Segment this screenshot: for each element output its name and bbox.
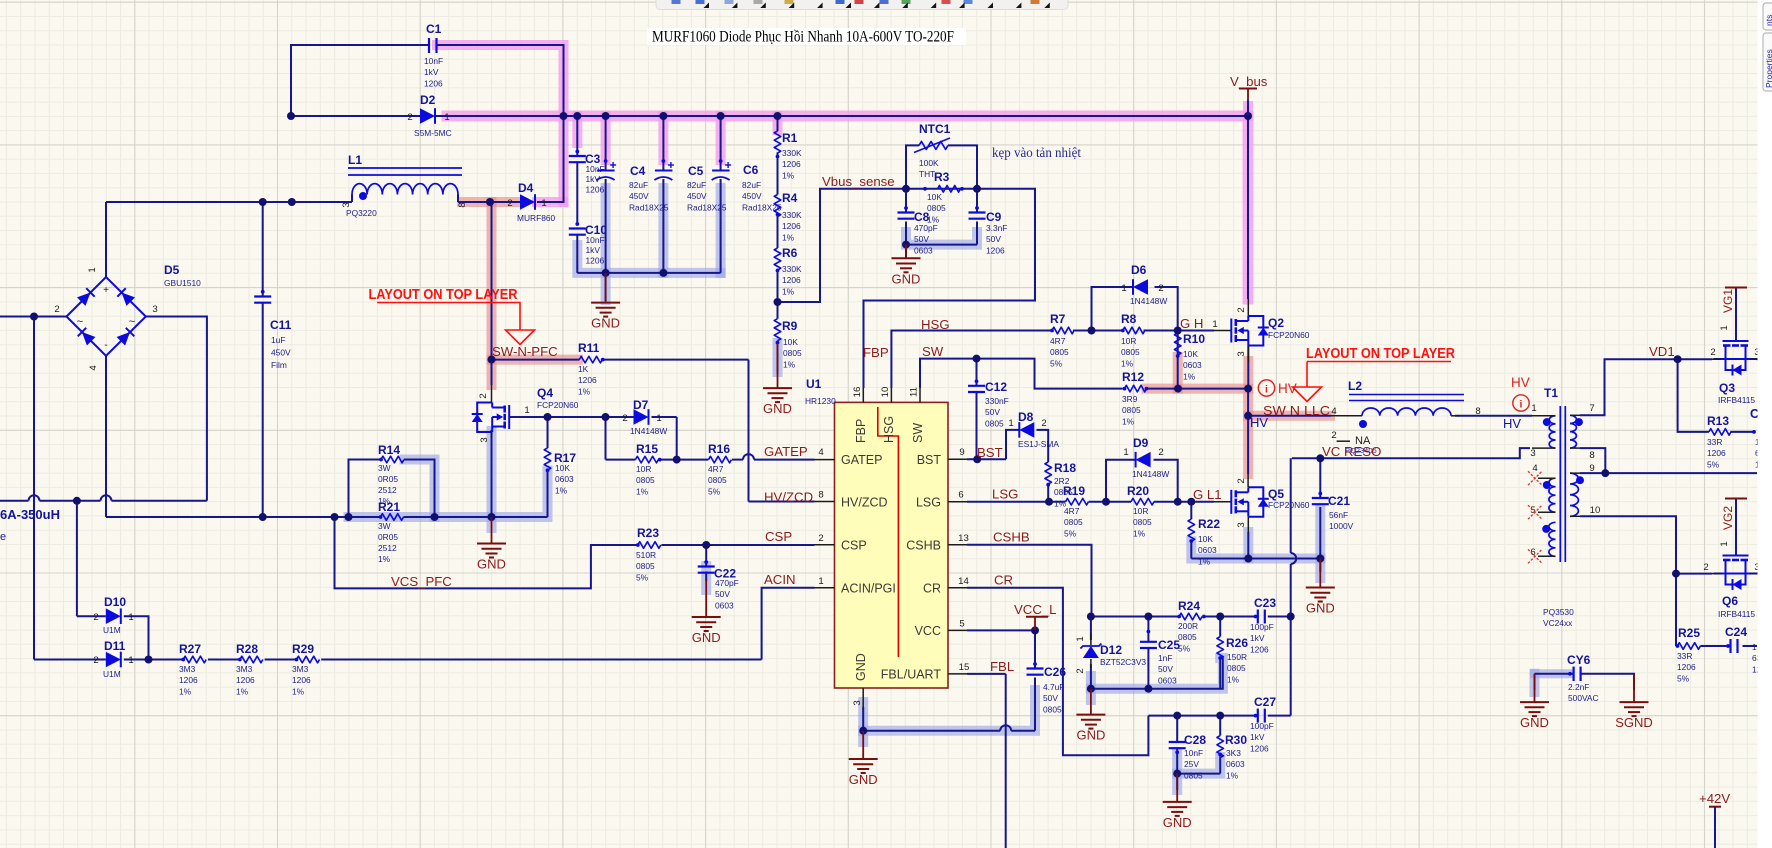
svg-text:1: 1 xyxy=(818,576,823,587)
wire R1 R4 R6 divider column xyxy=(777,116,779,131)
wire C21 column xyxy=(1319,458,1321,497)
svg-text:10K: 10K xyxy=(1183,349,1198,359)
wire VCC run xyxy=(967,629,1035,631)
svg-text:10nF: 10nF xyxy=(586,235,605,245)
capacitor C12 xyxy=(968,385,985,387)
svg-text:U1M: U1M xyxy=(103,625,121,635)
wire FBL vertical to sheet bottom xyxy=(967,673,1006,675)
svg-text:150R: 150R xyxy=(1227,652,1247,662)
svg-text:S5M-5MC: S5M-5MC xyxy=(414,128,452,138)
svg-text:R12: R12 xyxy=(1122,370,1144,384)
svg-text:1: 1 xyxy=(1719,541,1730,546)
resistor R29 xyxy=(297,656,320,663)
svg-text:1kV: 1kV xyxy=(1250,732,1265,742)
diode D8 ES1J-SMA xyxy=(1019,422,1034,438)
svg-text:R15: R15 xyxy=(636,442,658,456)
svg-text:HV/ZCD: HV/ZCD xyxy=(841,495,888,509)
svg-text:1: 1 xyxy=(128,655,133,666)
svg-text:1: 1 xyxy=(1008,418,1013,429)
svg-text:C21: C21 xyxy=(1328,494,1350,508)
svg-text:5%: 5% xyxy=(1064,528,1077,538)
bridge rectifier D5 GBU1510 xyxy=(67,277,146,356)
svg-text:C1: C1 xyxy=(426,22,442,36)
svg-text:100pF: 100pF xyxy=(1250,721,1274,731)
svg-text:BST: BST xyxy=(977,445,1003,460)
thermistor NTC1 100K xyxy=(919,141,948,149)
tooltip MURF1060 title xyxy=(647,28,966,45)
svg-text:3R9: 3R9 xyxy=(1122,394,1138,404)
svg-text:2: 2 xyxy=(1236,307,1247,312)
svg-text:56nF: 56nF xyxy=(1329,510,1348,520)
svg-text:14: 14 xyxy=(958,576,969,587)
svg-text:10K: 10K xyxy=(783,337,798,347)
wire D12 column xyxy=(1090,617,1092,641)
wire CR run xyxy=(967,588,1148,755)
salmon highlighted SW-N-PFC net glow xyxy=(462,197,519,207)
capacitor C25 xyxy=(1140,641,1157,643)
svg-text:3: 3 xyxy=(1236,522,1247,527)
wire R22 column xyxy=(1190,502,1192,519)
svg-text:0805: 0805 xyxy=(783,348,802,358)
svg-text:SW N LLC: SW N LLC xyxy=(1263,403,1331,418)
svg-text:D11: D11 xyxy=(104,639,126,653)
svg-text:Q5: Q5 xyxy=(1268,487,1284,501)
svg-text:HV/ZCD: HV/ZCD xyxy=(764,490,813,505)
svg-text:1: 1 xyxy=(1531,403,1536,414)
wire R17 leads xyxy=(547,417,549,448)
svg-text:0603: 0603 xyxy=(715,600,734,610)
svg-text:C24: C24 xyxy=(1725,625,1747,639)
signal ground SGND for CY6 right xyxy=(1633,674,1635,702)
wire R14 bypass xyxy=(349,460,382,518)
svg-text:1206: 1206 xyxy=(1250,743,1269,753)
svg-text:FCP20N60: FCP20N60 xyxy=(537,400,579,410)
resistor R15 xyxy=(635,456,658,463)
svg-text:R11: R11 xyxy=(578,341,600,355)
svg-text:1N4148W: 1N4148W xyxy=(630,426,667,436)
svg-text:C28: C28 xyxy=(1184,733,1206,747)
svg-text:1206: 1206 xyxy=(292,675,311,685)
ground symbol for Q5 source rail xyxy=(1319,559,1321,588)
ground symbol for R9 xyxy=(777,343,779,389)
svg-text:~: ~ xyxy=(77,316,83,328)
svg-text:9: 9 xyxy=(1589,463,1594,474)
svg-text:R14: R14 xyxy=(378,443,400,457)
svg-text:1: 1 xyxy=(1121,283,1126,294)
svg-text:CY6: CY6 xyxy=(1567,653,1591,667)
svg-text:VD1: VD1 xyxy=(1649,344,1675,359)
svg-text:Properties: Properties xyxy=(1764,49,1772,88)
ground symbol for Q4 source xyxy=(491,517,493,544)
svg-text:2: 2 xyxy=(93,655,98,666)
svg-text:3.3nF: 3.3nF xyxy=(986,223,1007,233)
wire NTC1 box xyxy=(906,145,919,188)
svg-text:0805: 0805 xyxy=(1184,770,1203,780)
svg-text:5: 5 xyxy=(959,618,964,629)
resistor R25 xyxy=(1677,643,1700,650)
svg-text:3: 3 xyxy=(479,437,490,442)
svg-text:2: 2 xyxy=(93,612,98,623)
svg-text:C6: C6 xyxy=(743,163,759,177)
svg-text:0805: 0805 xyxy=(708,475,727,485)
svg-text:R21: R21 xyxy=(378,500,400,514)
svg-text:Q3: Q3 xyxy=(1719,381,1735,395)
svg-text:CR: CR xyxy=(994,573,1013,588)
svg-text:5: 5 xyxy=(1530,505,1535,516)
svg-text:VC24xx: VC24xx xyxy=(1543,618,1573,628)
svg-text:1%: 1% xyxy=(1198,556,1211,566)
svg-text:3M3: 3M3 xyxy=(179,664,196,674)
wire R25 to C24 xyxy=(1700,645,1730,647)
wire C1 left lead to D2 node xyxy=(291,45,429,116)
svg-text:SW: SW xyxy=(922,344,944,359)
svg-text:1: 1 xyxy=(1719,325,1730,330)
wire V_bus bus from D2 cathode to corner xyxy=(434,116,1248,299)
svg-text:3W: 3W xyxy=(378,463,391,473)
svg-text:3M3: 3M3 xyxy=(292,664,309,674)
svg-text:82uF: 82uF xyxy=(742,180,761,190)
svg-text:100K: 100K xyxy=(919,158,939,168)
resistor R24 xyxy=(1179,613,1202,620)
svg-text:R23: R23 xyxy=(637,526,659,540)
svg-text:10K: 10K xyxy=(927,192,942,202)
capacitor C4 82uF xyxy=(597,170,615,172)
wire R11 to Q4 gate node xyxy=(491,360,493,362)
pink highlighted V_bus net glow xyxy=(437,45,564,202)
svg-text:L2: L2 xyxy=(1348,379,1362,393)
resistor R21 3W shunt xyxy=(381,514,404,521)
svg-text:200R: 200R xyxy=(1178,621,1198,631)
resistor R26 xyxy=(1217,637,1224,659)
transistor Q4 FCP20N60 xyxy=(508,405,510,429)
svg-text:-: - xyxy=(104,340,107,351)
svg-text:D9: D9 xyxy=(1133,436,1149,450)
resistor R11 xyxy=(579,356,602,363)
wire ACIN sense chain R27 R28 R29 xyxy=(124,659,183,661)
wire VC_RESO run xyxy=(1292,448,1530,458)
svg-text:CSP: CSP xyxy=(765,529,792,544)
salmon highlighted SW_N_LLC net glow xyxy=(1147,389,1249,474)
svg-text:1206: 1206 xyxy=(782,221,801,231)
svg-text:U1M: U1M xyxy=(103,669,121,679)
svg-text:9: 9 xyxy=(959,447,964,458)
wire SW-N-PFC to R11 and HV/ZCD xyxy=(492,359,580,361)
svg-text:i: i xyxy=(1265,384,1268,396)
svg-text:+: + xyxy=(103,285,109,296)
svg-text:1206: 1206 xyxy=(1707,448,1726,458)
wire C12 column xyxy=(976,359,978,385)
svg-text:ACIN: ACIN xyxy=(764,572,796,587)
svg-text:R29: R29 xyxy=(292,642,314,656)
svg-text:1206: 1206 xyxy=(179,675,198,685)
svg-text:R13: R13 xyxy=(1707,414,1729,428)
svg-text:1uF: 1uF xyxy=(271,335,285,345)
svg-text:1206: 1206 xyxy=(424,78,443,88)
svg-text:1%: 1% xyxy=(782,232,795,242)
svg-text:82uF: 82uF xyxy=(629,180,648,190)
svg-text:0603: 0603 xyxy=(555,474,574,484)
wire AC to D11 xyxy=(33,317,35,660)
svg-text:1206: 1206 xyxy=(236,675,255,685)
zener diode D12 BZT52C3V3 xyxy=(1090,633,1092,645)
svg-text:THT: THT xyxy=(919,169,935,179)
svg-text:1: 1 xyxy=(444,112,449,123)
svg-text:1kV: 1kV xyxy=(424,67,439,77)
svg-text:R18: R18 xyxy=(1054,461,1076,475)
svg-text:VCC_L: VCC_L xyxy=(1014,602,1057,617)
U1 internal FBP-FBL red link line xyxy=(878,407,899,657)
svg-text:3: 3 xyxy=(1530,448,1535,459)
svg-text:kẹp vào tản nhiệt: kẹp vào tản nhiệt xyxy=(992,145,1081,160)
svg-text:FCP20N60: FCP20N60 xyxy=(1268,330,1310,340)
svg-text:LSG: LSG xyxy=(992,487,1018,502)
svg-text:25V: 25V xyxy=(1184,759,1199,769)
svg-text:6A-350uH: 6A-350uH xyxy=(0,507,60,522)
svg-text:D6: D6 xyxy=(1131,263,1147,277)
svg-text:3: 3 xyxy=(852,700,863,705)
svg-text:GND: GND xyxy=(892,271,921,286)
capacitor C26 xyxy=(1027,667,1044,669)
svg-text:500VAC: 500VAC xyxy=(1568,693,1599,703)
svg-text:2: 2 xyxy=(507,198,512,209)
svg-text:1000V: 1000V xyxy=(1329,521,1354,531)
svg-text:PQ3530: PQ3530 xyxy=(1543,607,1574,617)
svg-text:HV: HV xyxy=(1503,416,1521,431)
U1 top pins 16 10 11 xyxy=(862,388,864,402)
svg-text:3W: 3W xyxy=(378,521,391,531)
svg-text:IRFB4115: IRFB4115 xyxy=(1718,609,1755,619)
svg-text:0R05: 0R05 xyxy=(378,532,398,542)
svg-text:G L1: G L1 xyxy=(1193,487,1222,502)
wire C26 column xyxy=(1034,630,1036,668)
svg-text:~: ~ xyxy=(129,316,135,328)
svg-text:1: 1 xyxy=(1123,447,1128,458)
svg-text:Q2: Q2 xyxy=(1268,316,1284,330)
wire VCS_PFC run xyxy=(335,517,638,588)
svg-text:1N4148W: 1N4148W xyxy=(1130,296,1167,306)
ground symbol for CY6 left xyxy=(1534,674,1536,702)
svg-text:GND: GND xyxy=(1520,715,1549,730)
resistor R16 xyxy=(709,456,732,463)
svg-text:L1: L1 xyxy=(348,153,362,167)
op-amp controller U1 HR1230 body xyxy=(835,402,949,688)
svg-text:ACIN/PGI: ACIN/PGI xyxy=(841,582,896,596)
svg-text:SW: SW xyxy=(911,423,925,443)
svg-text:50V: 50V xyxy=(715,589,730,599)
wire D2 anode xyxy=(291,115,420,117)
svg-text:R25: R25 xyxy=(1678,626,1700,640)
svg-text:8: 8 xyxy=(1475,406,1480,417)
svg-text:3M3: 3M3 xyxy=(236,664,253,674)
wire lower rail C28 R30 C27 xyxy=(1148,715,1257,717)
wire D10 cathode to D11 node xyxy=(124,616,149,659)
wire T1 pin10 to Q6 and R25 xyxy=(1580,516,1676,573)
wire T1 pin8 pin9 junction xyxy=(1580,448,1605,473)
capacitor C21 xyxy=(1312,497,1329,499)
wire bridge output pin4 xyxy=(105,356,107,517)
svg-text:1N4148W: 1N4148W xyxy=(1132,469,1169,479)
svg-text:2: 2 xyxy=(1331,430,1336,441)
wire GATEP run R15 R16 xyxy=(606,459,636,461)
svg-text:SGND: SGND xyxy=(1615,715,1653,730)
svg-text:LAYOUT ON TOP LAYER: LAYOUT ON TOP LAYER xyxy=(1306,346,1455,362)
svg-text:0805: 0805 xyxy=(636,475,655,485)
wire R9 to GND xyxy=(777,302,779,319)
svg-text:1: 1 xyxy=(1212,319,1217,330)
svg-text:330K: 330K xyxy=(782,264,802,274)
svg-text:1%: 1% xyxy=(179,686,192,696)
svg-text:1: 1 xyxy=(87,267,98,272)
capacitor C11 xyxy=(254,295,271,297)
svg-text:HV: HV xyxy=(1511,375,1530,390)
U1 bottom pin 3 GND xyxy=(862,688,864,710)
wire R13 branch from VD1 xyxy=(1678,359,1709,432)
svg-text:1206: 1206 xyxy=(782,275,801,285)
svg-text:0805: 0805 xyxy=(1227,663,1246,673)
svg-text:50V: 50V xyxy=(986,234,1001,244)
wire rectifier + rail y=202 xyxy=(106,201,352,203)
svg-text:4.7uF: 4.7uF xyxy=(1043,682,1064,692)
svg-text:R3: R3 xyxy=(934,170,950,184)
svg-text:D12: D12 xyxy=(1100,643,1122,657)
capacitor C8 xyxy=(898,211,915,213)
wire HSG run xyxy=(891,331,1052,389)
svg-text:GND: GND xyxy=(1306,601,1335,616)
wire SW-N-PFC vertical to Q4 drain xyxy=(491,202,493,385)
capacitor C3 xyxy=(569,155,586,157)
svg-text:R6: R6 xyxy=(782,246,798,260)
svg-text:510R: 510R xyxy=(636,550,656,560)
svg-text:CSP: CSP xyxy=(841,539,867,553)
diode D4 MURF860 xyxy=(520,194,535,210)
svg-text:1%: 1% xyxy=(236,686,249,696)
capacitor C1 xyxy=(428,38,430,53)
svg-text:VG1: VG1 xyxy=(1721,289,1735,313)
svg-text:5%: 5% xyxy=(1707,459,1720,469)
resistor R9 xyxy=(774,319,781,341)
resistor R13 xyxy=(1709,429,1731,436)
wire CY6 leads xyxy=(1535,673,1574,675)
svg-text:D10: D10 xyxy=(104,595,126,609)
svg-text:5%: 5% xyxy=(708,486,721,496)
svg-text:R28: R28 xyxy=(236,642,258,656)
svg-text:10nF: 10nF xyxy=(1184,748,1203,758)
svg-text:Q4: Q4 xyxy=(537,386,553,400)
ground symbol for C22 xyxy=(705,580,707,617)
resistor R1 xyxy=(774,131,781,153)
svg-text:FCP20N60: FCP20N60 xyxy=(1268,500,1310,510)
svg-text:10nF: 10nF xyxy=(424,56,443,66)
resistor R28 xyxy=(240,656,263,663)
svg-text:C27: C27 xyxy=(1254,695,1276,709)
svg-text:BZT52C3V3: BZT52C3V3 xyxy=(1100,657,1146,667)
svg-text:VCS_PFC: VCS_PFC xyxy=(391,574,452,589)
svg-text:4R7: 4R7 xyxy=(1050,336,1066,346)
svg-text:4: 4 xyxy=(1532,463,1538,474)
resistor R23 xyxy=(638,542,661,549)
capacitor C27 xyxy=(1257,709,1259,723)
svg-text:0805: 0805 xyxy=(636,561,655,571)
wire cap bank columns xyxy=(576,116,578,155)
svg-text:R4: R4 xyxy=(782,191,798,205)
svg-text:0805: 0805 xyxy=(1133,517,1152,527)
svg-text:0603: 0603 xyxy=(1226,759,1245,769)
svg-text:C8: C8 xyxy=(914,210,930,224)
svg-text:0603: 0603 xyxy=(1183,360,1202,370)
svg-text:R27: R27 xyxy=(179,642,201,656)
svg-text:1%: 1% xyxy=(378,554,391,564)
svg-text:HR1230: HR1230 xyxy=(805,396,836,406)
wire C25 column xyxy=(1147,617,1149,642)
wire C1 right to D4 cathode vertical xyxy=(437,45,564,202)
transistor Q3 IRFB4115 xyxy=(1723,340,1749,342)
svg-text:10: 10 xyxy=(1590,505,1601,516)
svg-text:8: 8 xyxy=(1589,450,1594,461)
svg-text:HSG: HSG xyxy=(882,416,896,443)
svg-text:i: i xyxy=(1520,399,1523,411)
wire C11 column xyxy=(262,202,264,296)
svg-text:1%: 1% xyxy=(782,170,795,180)
T1 no-ERC cross marks xyxy=(1528,471,1542,485)
svg-text:1206: 1206 xyxy=(1677,662,1696,672)
svg-text:1206: 1206 xyxy=(986,245,1005,255)
svg-text:C9: C9 xyxy=(986,210,1002,224)
svg-text:GND: GND xyxy=(692,630,721,645)
wire D6 bypass loop xyxy=(1092,287,1134,331)
svg-text:1kV: 1kV xyxy=(1250,633,1265,643)
svg-text:330nF: 330nF xyxy=(985,396,1009,406)
svg-text:ES1J-SMA: ES1J-SMA xyxy=(1018,439,1059,449)
svg-text:330K: 330K xyxy=(782,210,802,220)
capacitor C5 82uF xyxy=(655,170,673,172)
svg-text:0805: 0805 xyxy=(1043,704,1062,714)
svg-text:R30: R30 xyxy=(1225,733,1247,747)
resistor R17 xyxy=(544,448,551,470)
transistor Q5 FCP20N60 xyxy=(1230,490,1232,514)
svg-text:GND: GND xyxy=(477,557,506,572)
svg-text:CSHB: CSHB xyxy=(906,539,941,553)
svg-text:R10: R10 xyxy=(1183,332,1205,346)
wire BST run with D8 R18 xyxy=(967,458,1006,460)
svg-text:4R7: 4R7 xyxy=(708,464,724,474)
wire ground bar under U1 xyxy=(863,730,1000,732)
svg-text:16: 16 xyxy=(852,387,863,398)
svg-text:0603: 0603 xyxy=(1198,545,1217,555)
resistor R20 xyxy=(1131,498,1154,505)
svg-text:1%: 1% xyxy=(1183,371,1196,381)
svg-text:450V: 450V xyxy=(271,348,291,358)
svg-text:3: 3 xyxy=(341,202,352,207)
U1 left pins 4 8 2 1 xyxy=(815,459,835,461)
wire Q4 source to rail xyxy=(491,430,493,517)
svg-text:D2: D2 xyxy=(420,93,436,107)
resistor R14 3W shunt xyxy=(381,456,404,463)
svg-text:470pF: 470pF xyxy=(715,578,739,588)
svg-text:GND: GND xyxy=(1163,815,1192,830)
svg-text:82uF: 82uF xyxy=(687,180,706,190)
svg-text:LAYOUT ON TOP LAYER: LAYOUT ON TOP LAYER xyxy=(369,287,518,303)
svg-text:C26: C26 xyxy=(1044,665,1066,679)
resistor R7 xyxy=(1052,327,1074,334)
wire SW run to C12 R12 xyxy=(920,359,1123,389)
svg-text:D4: D4 xyxy=(518,181,534,195)
svg-text:4R7: 4R7 xyxy=(1064,506,1080,516)
svg-text:450V: 450V xyxy=(629,191,649,201)
svg-text:2512: 2512 xyxy=(378,543,397,553)
right panel strip xyxy=(1758,0,1772,848)
T1 pin stubs xyxy=(1532,415,1556,417)
svg-text:GND: GND xyxy=(763,401,792,416)
